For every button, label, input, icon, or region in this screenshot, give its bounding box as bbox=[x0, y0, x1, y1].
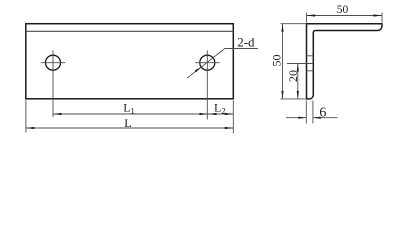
svg-text:L2: L2 bbox=[214, 101, 226, 116]
svg-text:50: 50 bbox=[337, 4, 349, 16]
svg-text:L1: L1 bbox=[123, 101, 135, 116]
svg-text:L: L bbox=[124, 116, 131, 130]
svg-text:20: 20 bbox=[286, 70, 300, 82]
svg-text:50: 50 bbox=[269, 55, 283, 67]
svg-text:6: 6 bbox=[319, 105, 326, 120]
svg-text:2-d: 2-d bbox=[237, 35, 255, 50]
